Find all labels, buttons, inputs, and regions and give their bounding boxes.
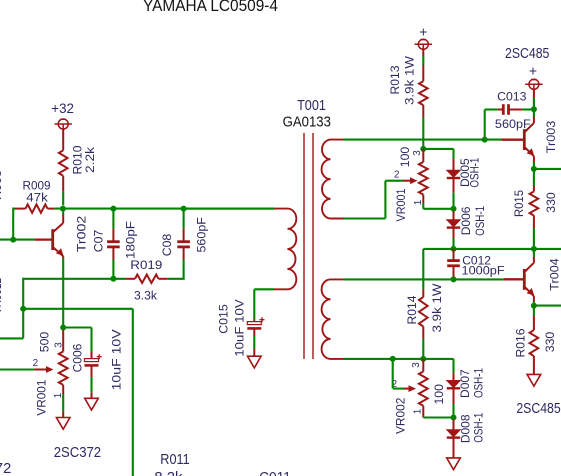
wire x=423.3 down to R014 <box>422 249 424 289</box>
svg-text:R011: R011 <box>160 452 189 468</box>
svg-text:T001: T001 <box>297 97 326 114</box>
diode D006 <box>452 209 454 212</box>
diode D008 <box>452 418 454 421</box>
junction Tr003 emitter <box>531 166 537 172</box>
svg-text:OSH-1: OSH-1 <box>472 413 486 443</box>
svg-text:1: 1 <box>53 393 64 398</box>
svg-text:+: + <box>419 24 427 40</box>
wire emitter row y=305.6 <box>534 305 561 307</box>
node A horizontal wire y=208.6 <box>54 208 274 210</box>
junction node A C08 <box>181 206 187 212</box>
svg-text:R014: R014 <box>405 295 419 324</box>
transformer T001 secondary bottom winding <box>322 279 344 359</box>
junction C07 bottom <box>110 276 116 282</box>
resistor R013 <box>422 65 424 81</box>
svg-text:100: 100 <box>398 147 412 168</box>
transformer T001 secondary top winding <box>322 140 344 219</box>
svg-text:1000pF: 1000pF <box>462 264 506 278</box>
svg-text:2.2k: 2.2k <box>83 146 97 173</box>
wire R009 left to base node <box>12 208 14 240</box>
wire secondary top lead y=139.6 <box>344 139 502 141</box>
junction D007 D008 <box>451 415 457 421</box>
wire secondary bottom lead y=358.9 <box>344 358 454 360</box>
wire R019 to C08 corner <box>168 278 185 280</box>
svg-text:3.9k 1W: 3.9k 1W <box>403 56 417 105</box>
svg-text:VR001: VR001 <box>394 188 408 221</box>
transformer T001 core <box>303 133 305 359</box>
svg-text:OSH-1: OSH-1 <box>472 368 486 398</box>
svg-text:500: 500 <box>38 332 52 353</box>
ground C006 <box>85 398 99 410</box>
junction emitter node <box>60 325 66 331</box>
svg-text:+32: +32 <box>51 101 74 116</box>
junction node A C07 <box>110 206 116 212</box>
svg-text:VR002: VR002 <box>394 397 408 434</box>
junction R014 VR002 <box>420 356 426 362</box>
svg-text:YAMAHA LC0509-4: YAMAHA LC0509-4 <box>143 0 278 15</box>
svg-text:560pF: 560pF <box>495 117 531 131</box>
resistor R016 <box>533 306 535 316</box>
svg-text:Tr004: Tr004 <box>548 258 561 291</box>
svg-text:3: 3 <box>54 342 65 348</box>
svg-text:2: 2 <box>394 170 399 181</box>
svg-text:C013: C013 <box>497 90 527 104</box>
capacitor C07 <box>112 209 114 229</box>
wiper VR002 wire <box>392 359 394 389</box>
svg-text:3.3k: 3.3k <box>134 289 158 303</box>
svg-text:R016: R016 <box>514 328 528 357</box>
wire primary bottom lead <box>254 288 274 290</box>
transistor Tr003 <box>502 139 524 141</box>
junction row248 D006 <box>451 246 457 252</box>
svg-text:8.2k: 8.2k <box>154 470 183 476</box>
svg-text:C015: C015 <box>217 304 231 334</box>
wire R013 to junction <box>422 117 424 148</box>
potentiometer VR002 <box>422 359 424 372</box>
ground C015 <box>248 356 262 368</box>
wiper VR002 <box>393 388 404 390</box>
svg-text:D008: D008 <box>459 414 473 443</box>
ground D008 <box>447 458 461 470</box>
svg-text:GA0133: GA0133 <box>283 114 331 131</box>
wiper VR001 left <box>0 368 34 370</box>
wire primary top lead <box>184 208 274 210</box>
junction node A R010 <box>60 206 66 212</box>
resistor R015 <box>533 169 535 186</box>
svg-text:10uF 10V: 10uF 10V <box>110 328 124 390</box>
svg-text:72: 72 <box>0 461 11 476</box>
svg-text:OSH-1: OSH-1 <box>473 206 487 236</box>
svg-text:OSH-1: OSH-1 <box>468 157 482 187</box>
junction D005 D006 <box>451 206 457 212</box>
svg-text:3.9k 1W: 3.9k 1W <box>430 283 444 332</box>
potentiometer VR001 right <box>422 149 424 162</box>
svg-text:100: 100 <box>432 384 446 405</box>
resistor R019 <box>126 278 135 280</box>
junction base node <box>10 237 16 243</box>
ground VR001 left <box>56 418 70 430</box>
svg-text:R019: R019 <box>130 258 162 272</box>
wire emitter node y=327.5 <box>63 326 91 328</box>
svg-text:180pF: 180pF <box>124 220 138 259</box>
svg-text:C006: C006 <box>71 344 85 373</box>
wire exit left y=338.4 <box>0 337 23 339</box>
potentiometer VR001 left <box>62 328 64 331</box>
capacitor C006 <box>90 328 92 353</box>
junction C013 right <box>531 106 537 112</box>
svg-text:2SC372: 2SC372 <box>54 445 101 461</box>
wiper VR001 right <box>397 180 403 182</box>
transistor Tr004 <box>504 278 524 280</box>
ground R016 <box>527 374 541 386</box>
svg-text:330: 330 <box>544 192 558 213</box>
junction node B <box>420 146 426 152</box>
junction row248 Tr004 <box>531 246 537 252</box>
diode D005 <box>453 159 455 170</box>
wire wiper feed <box>385 180 398 182</box>
svg-text:1: 1 <box>413 200 424 205</box>
wire long vertical x=132.8 <box>132 309 134 476</box>
junction VR002 wiper drop <box>390 356 396 362</box>
svg-text:C011: C011 <box>259 470 291 476</box>
svg-text:C07: C07 <box>92 230 106 253</box>
junction Tr004 emitter <box>531 303 537 309</box>
svg-text:R013: R013 <box>388 65 402 94</box>
node B y=148.9 <box>423 148 453 150</box>
svg-text:VR0012: VR0012 <box>0 278 4 314</box>
resistor R010 <box>59 150 68 175</box>
wire R010 to node A <box>62 191 64 205</box>
svg-text:2: 2 <box>33 358 38 369</box>
diode D007 <box>453 373 455 381</box>
wire down to D005 <box>452 149 454 159</box>
wire VR002 bottom row y=417.5 <box>423 416 453 418</box>
wire secondary mid lead y=279.4 <box>344 278 504 280</box>
svg-text:3: 3 <box>412 150 423 156</box>
svg-text:VR001: VR001 <box>35 379 49 415</box>
svg-text:560pF: 560pF <box>195 217 209 253</box>
svg-text:3: 3 <box>411 362 422 368</box>
svg-text:10uF 10V: 10uF 10V <box>233 298 247 356</box>
resistor R014 <box>422 289 424 297</box>
svg-text:330: 330 <box>543 332 557 353</box>
capacitor C08 <box>183 209 185 229</box>
wire row y=248.9 <box>423 248 561 250</box>
wire y=278.8 row <box>23 278 125 280</box>
transformer T001 primary winding <box>274 209 296 290</box>
transistor Tr002 <box>51 229 54 250</box>
svg-text:R008: R008 <box>0 170 4 200</box>
svg-text:C08: C08 <box>160 234 174 257</box>
wire emitter row y=168.9 <box>534 168 561 170</box>
svg-text:2SC485: 2SC485 <box>516 401 560 417</box>
junction C012 bottom <box>451 276 457 282</box>
svg-text:D006: D006 <box>459 206 473 235</box>
wire y=308.8 to long vertical <box>23 308 133 310</box>
wire to D007 <box>452 359 454 373</box>
junction C013 drop <box>482 137 488 143</box>
capacitor C012 <box>453 249 455 260</box>
wire base from left edge <box>0 239 34 241</box>
wire Tr002 emitter down <box>62 258 64 327</box>
svg-text:Tr002: Tr002 <box>74 216 88 253</box>
junction x=23.2 y=308.8 <box>20 306 26 312</box>
capacitor C015 <box>253 319 255 322</box>
wire left vertical x=23.2 <box>22 278 24 339</box>
svg-text:1: 1 <box>413 409 424 414</box>
svg-text:R015: R015 <box>512 190 526 217</box>
wire pot bottom to D006 <box>423 208 453 210</box>
svg-text:Tr003: Tr003 <box>544 121 558 154</box>
svg-text:+: + <box>529 63 537 79</box>
capacitor C013 <box>485 108 498 110</box>
svg-text:2SC485: 2SC485 <box>505 46 549 62</box>
svg-text:D007: D007 <box>458 369 472 398</box>
